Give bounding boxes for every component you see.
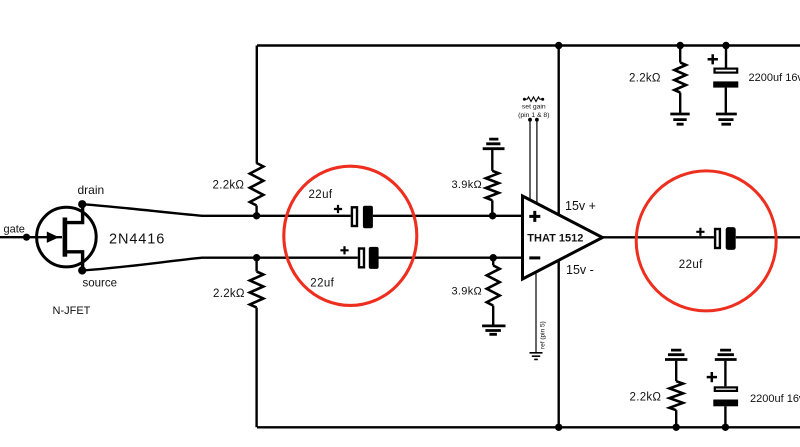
wire power rail vertical bbox=[558, 46, 560, 428]
wire lower-left rail bbox=[255, 258, 257, 428]
wire R3 to drain row bbox=[491, 200, 493, 216]
C5 hollow plate bbox=[715, 387, 737, 391]
svg-text:(pin 1 & 8): (pin 1 & 8) bbox=[518, 112, 549, 119]
node junction dot - input bbox=[490, 254, 497, 261]
C2 plus sign bbox=[340, 246, 348, 254]
svg-text:22uf: 22uf bbox=[310, 277, 334, 289]
svg-text:22uf: 22uf bbox=[679, 259, 703, 271]
wire R6 to rail bbox=[675, 410, 677, 427]
wire rail to C4 bbox=[725, 46, 727, 68]
red highlight circle right bbox=[636, 171, 776, 311]
svg-text:3.9kΩ: 3.9kΩ bbox=[452, 286, 483, 298]
svg-text:2.2kΩ: 2.2kΩ bbox=[629, 72, 661, 84]
wire ground to C5 bbox=[724, 361, 726, 387]
resistor R5 2.2k top-right bbox=[670, 46, 689, 125]
resistor R6 zigzag bbox=[669, 381, 683, 410]
resistor R6 2.2k bottom-right with flipped ground bbox=[665, 350, 687, 427]
node C4 rail dot bbox=[722, 42, 729, 49]
svg-text:2200uf 16v: 2200uf 16v bbox=[749, 72, 800, 84]
C2 hollow plate bbox=[359, 249, 364, 268]
svg-text:2N4416: 2N4416 bbox=[109, 231, 165, 247]
C3 solid plate bbox=[726, 227, 736, 250]
set gain resistor end dots bbox=[523, 98, 526, 101]
node set gain wire dots bbox=[528, 118, 532, 122]
wire C5 to rail bbox=[724, 406, 726, 427]
resistor R3 3.9k upper with flipped ground bbox=[483, 139, 505, 216]
node power rail bottom dot bbox=[555, 424, 562, 431]
svg-text:ref (pin 5): ref (pin 5) bbox=[540, 321, 547, 349]
C5 solid plate bbox=[713, 400, 738, 407]
wire R4 to ground bbox=[492, 306, 494, 325]
wire source row to R4 bbox=[492, 258, 494, 266]
wire drain row bbox=[83, 204, 523, 216]
wire left rail upper segment bbox=[256, 46, 258, 164]
C4 solid plate bbox=[713, 81, 738, 87]
wire R5 to ground bbox=[679, 93, 681, 113]
capacitor C3 22uf output bbox=[679, 227, 736, 271]
node R5 rail dot bbox=[677, 42, 684, 49]
svg-text:15v +: 15v + bbox=[565, 199, 596, 213]
wire top rail bbox=[257, 44, 800, 46]
capacitor C4 2200uf top-right bbox=[708, 42, 800, 124]
capacitor C5 2200uf bottom-right bbox=[707, 350, 800, 431]
wire ground to R3 bbox=[491, 150, 493, 171]
node gate dot bbox=[23, 234, 30, 241]
node C5 rail dot bbox=[722, 424, 729, 431]
resistor R3 zigzag bbox=[486, 171, 499, 201]
wire output row bbox=[601, 236, 800, 238]
set gain resistor symbol bbox=[525, 97, 543, 102]
C1 solid plate bbox=[363, 206, 373, 229]
resistor R1 2.2k upper-left bbox=[250, 163, 264, 206]
op-amp plus input symbol bbox=[529, 211, 540, 222]
C5 plus sign bbox=[707, 376, 717, 379]
JFET source lead bbox=[65, 252, 83, 270]
svg-text:gate: gate bbox=[4, 224, 25, 236]
svg-text:2.2kΩ: 2.2kΩ bbox=[630, 391, 662, 403]
JFET gate arrowhead bbox=[47, 232, 58, 242]
wire set gain pin 1 bbox=[529, 120, 531, 202]
op-amp U1 THAT 1512 bbox=[523, 196, 603, 279]
resistor R4 zigzag bbox=[487, 265, 500, 305]
wire rail to R5 bbox=[679, 46, 681, 63]
wire C4 to ground bbox=[725, 88, 727, 113]
svg-text:set gain: set gain bbox=[522, 104, 546, 111]
wire source row bbox=[83, 258, 523, 271]
node drain dot bbox=[78, 200, 86, 208]
C3 hollow plate bbox=[715, 229, 720, 248]
ground below C4 bbox=[716, 114, 737, 124]
ground ref small bbox=[530, 353, 543, 360]
resistor R5 zigzag bbox=[674, 63, 686, 93]
C1 hollow plate bbox=[352, 207, 357, 226]
wire resistor R1 to drain row bbox=[255, 206, 257, 216]
C4 hollow plate bbox=[715, 69, 738, 73]
svg-text:2200uf 16v: 2200uf 16v bbox=[750, 393, 800, 405]
wire gate lead bbox=[0, 236, 62, 238]
resistor R2 2.2k lower-left bbox=[250, 272, 264, 308]
ground flipped above R3 bbox=[483, 139, 505, 149]
node junction dot + input bbox=[489, 212, 496, 219]
node power rail top dot bbox=[555, 42, 562, 49]
resistor R4 3.9k lower with ground bbox=[482, 258, 505, 335]
ground flipped above R6 bbox=[665, 350, 687, 359]
wire bottom rail bbox=[257, 426, 800, 428]
JFET channel bar bbox=[63, 218, 68, 257]
svg-text:THAT 1512: THAT 1512 bbox=[527, 232, 583, 244]
C1 plus sign bbox=[334, 205, 342, 213]
JFET drain lead bbox=[65, 205, 83, 223]
node source dot bbox=[78, 266, 86, 274]
node junction dot drain/left rail bbox=[253, 212, 260, 219]
svg-text:15v -: 15v - bbox=[566, 263, 594, 277]
svg-text:source: source bbox=[83, 278, 118, 290]
JFET body circle bbox=[37, 207, 97, 267]
C2 solid plate bbox=[369, 247, 379, 269]
red highlight circle left bbox=[284, 166, 417, 305]
ground flipped above C5 bbox=[715, 350, 737, 359]
C3 plus sign bbox=[696, 228, 704, 236]
ground below R5 bbox=[670, 114, 689, 124]
svg-text:22uf: 22uf bbox=[309, 189, 333, 201]
wire ref pin 5 bbox=[535, 265, 537, 352]
op-amp minus input symbol bbox=[529, 256, 540, 259]
C4 plus sign bbox=[708, 54, 718, 64]
svg-text:2.2kΩ: 2.2kΩ bbox=[213, 288, 245, 300]
wire ground to R6 bbox=[675, 361, 677, 381]
ground below R4 bbox=[482, 326, 505, 334]
svg-text:2.2kΩ: 2.2kΩ bbox=[213, 180, 245, 192]
node R6 rail dot bbox=[673, 424, 680, 431]
wire set gain pin 8 bbox=[536, 120, 538, 206]
svg-text:3.9kΩ: 3.9kΩ bbox=[452, 179, 483, 191]
capacitor C2 22uf bottom input bbox=[310, 246, 378, 289]
svg-text:drain: drain bbox=[78, 183, 105, 197]
capacitor C1 22uf top input bbox=[309, 189, 373, 228]
node junction dot source/left rail bbox=[253, 254, 260, 261]
transistor Q1 2N4416 N-JFET bbox=[37, 205, 97, 270]
svg-text:N-JFET: N-JFET bbox=[53, 305, 91, 317]
